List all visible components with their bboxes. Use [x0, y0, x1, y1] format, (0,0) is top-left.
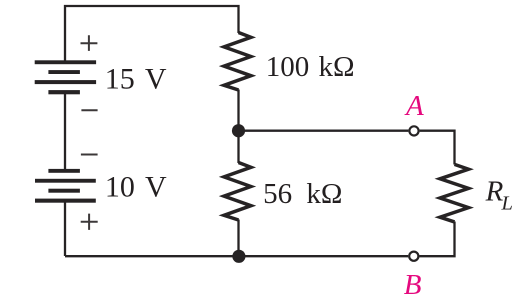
resistor RL load zigzag — [440, 164, 469, 222]
battery V2 plate long — [35, 179, 96, 183]
svg-text:10 V: 10 V — [105, 171, 167, 204]
battery V2 plate short — [48, 189, 80, 193]
svg-text:B: B — [404, 269, 422, 301]
plus sign battery V2 — [81, 214, 98, 230]
terminal A open circle — [409, 126, 418, 135]
battery V2 plate short top — [48, 169, 80, 173]
svg-text:100 kΩ: 100 kΩ — [266, 51, 355, 83]
wire: mid rail node to terminal A — [239, 130, 409, 132]
battery V1 plate long — [35, 80, 96, 84]
minus sign battery V2 — [81, 154, 98, 156]
junction node dot upper — [232, 124, 245, 137]
wire: left rail bottom segment — [64, 202, 66, 257]
minus sign battery V1 — [81, 109, 97, 111]
battery V1 plate long top — [35, 60, 96, 64]
svg-text:A: A — [404, 90, 424, 122]
wire: RL bottom to right corner to terminal B — [419, 222, 454, 257]
battery V1 plate short — [48, 70, 80, 74]
resistor 56 kOhm zigzag — [224, 163, 251, 221]
battery V2 plate long bottom — [35, 199, 96, 203]
wire: left rail between batteries — [64, 93, 66, 171]
terminal B open circle — [409, 252, 418, 261]
svg-text:15 V: 15 V — [105, 63, 167, 96]
wire: terminal A to right corner, down to RL — [420, 131, 455, 165]
resistor 100 kOhm zigzag — [224, 33, 251, 91]
battery V1 plate short bottom — [48, 90, 80, 94]
wire: top rail with left and middle corners — [65, 6, 239, 62]
junction node dot lower — [232, 250, 245, 263]
plus sign battery V1 — [81, 35, 98, 51]
wire: middle branch between 100k and node A-row — [237, 90, 239, 164]
wire: terminal B to bottom node to left rail — [65, 255, 408, 257]
svg-text:56 kΩ: 56 kΩ — [263, 178, 342, 210]
svg-text:RL: RL — [485, 176, 513, 215]
wire: middle branch between 56k and bottom node — [237, 220, 239, 257]
